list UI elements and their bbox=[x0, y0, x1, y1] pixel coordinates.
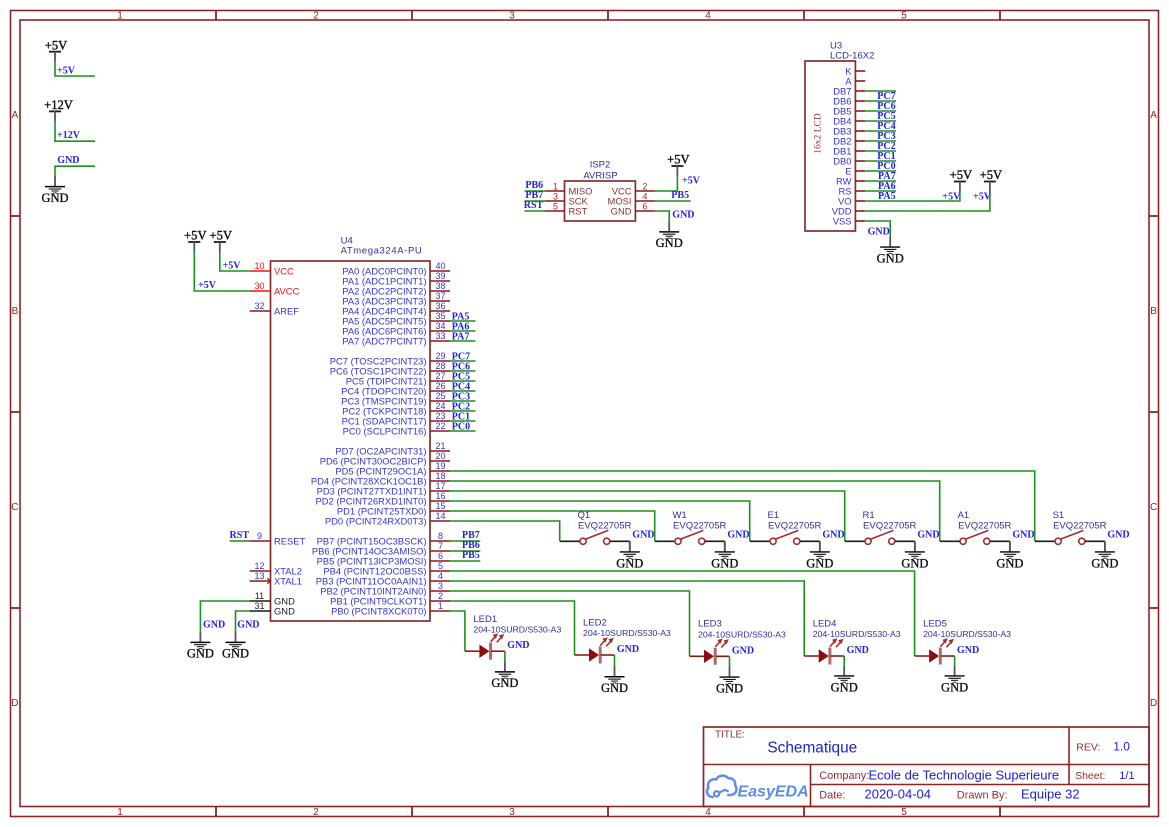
U4 pin 23 PC1 bbox=[342, 411, 450, 426]
svg-text:+5V: +5V bbox=[45, 38, 68, 52]
svg-text:D: D bbox=[1150, 698, 1157, 709]
svg-text:21: 21 bbox=[435, 441, 445, 451]
svg-text:204-10SURD/S530-A3: 204-10SURD/S530-A3 bbox=[698, 629, 786, 639]
ground LED4 bbox=[831, 665, 858, 694]
svg-text:GND: GND bbox=[1012, 530, 1034, 541]
U3 pin VDD bbox=[832, 205, 865, 216]
U3 pin VSS bbox=[833, 215, 865, 226]
U4 pin 37 PA3 bbox=[342, 291, 450, 306]
svg-text:GND: GND bbox=[877, 251, 904, 265]
wire LED5 cathode to ground bbox=[954, 656, 956, 665]
svg-text:16x2 LCD: 16x2 LCD bbox=[813, 113, 823, 154]
U4 pin 33 PA7 bbox=[342, 331, 450, 346]
wire U3 E stub bbox=[865, 170, 896, 172]
U4 pin 6 PB5 bbox=[317, 551, 450, 566]
wire PD3 run from U4 to switch R1 bbox=[450, 491, 845, 541]
wire PD0 run from U4 to switch Q1 bbox=[450, 521, 560, 541]
svg-text:12: 12 bbox=[254, 561, 264, 571]
svg-text:31: 31 bbox=[254, 601, 264, 611]
wire LED4 cathode to ground bbox=[843, 656, 845, 665]
svg-text:EVQ22705R: EVQ22705R bbox=[863, 521, 916, 532]
svg-text:39: 39 bbox=[435, 271, 445, 281]
svg-text:+5V: +5V bbox=[950, 168, 973, 182]
svg-text:1: 1 bbox=[117, 10, 123, 21]
svg-text:204-10SURD/S530-A3: 204-10SURD/S530-A3 bbox=[473, 625, 561, 635]
wire PC6 stub at U4 bbox=[450, 370, 475, 372]
svg-text:GND: GND bbox=[1091, 556, 1118, 570]
svg-text:AREF: AREF bbox=[274, 305, 299, 316]
ground W1 bbox=[711, 541, 738, 570]
svg-text:5: 5 bbox=[553, 201, 558, 211]
frame column numbers bottom bbox=[117, 807, 907, 818]
svg-text:2020-04-04: 2020-04-04 bbox=[865, 786, 932, 801]
wire PC3 stub at U4 bbox=[450, 400, 475, 402]
U4 pin 13 XTAL1 bbox=[250, 571, 302, 586]
svg-text:A: A bbox=[12, 110, 19, 121]
svg-text:A1: A1 bbox=[958, 510, 970, 521]
EasyEDA logo bbox=[707, 776, 809, 801]
svg-text:GND: GND bbox=[617, 644, 639, 655]
wire PB6 to ISP2 pin1 bbox=[525, 190, 545, 192]
svg-text:LED2: LED2 bbox=[583, 617, 607, 628]
wire PC7 stub at U4 bbox=[450, 360, 475, 362]
svg-text:VSS: VSS bbox=[833, 215, 852, 226]
svg-text:PA7 (ADC7PCINT7): PA7 (ADC7PCINT7) bbox=[342, 335, 426, 346]
svg-text:EasyEDA: EasyEDA bbox=[738, 784, 809, 801]
svg-text:204-10SURD/S530-A3: 204-10SURD/S530-A3 bbox=[923, 629, 1011, 639]
svg-text:GND: GND bbox=[611, 205, 632, 216]
wire U3 DB1 stub bbox=[865, 150, 896, 152]
wire U3 RS stub bbox=[865, 190, 896, 192]
svg-text:GND: GND bbox=[632, 530, 654, 541]
svg-text:+5V: +5V bbox=[57, 65, 76, 76]
power flag +5V at ISP2 bbox=[667, 153, 690, 176]
switch R1 EVQ22705R bbox=[845, 510, 917, 551]
wire ISP2 pin2 VCC to +5V bbox=[655, 176, 677, 191]
led LED2 204-10SURD/S530-A3 bbox=[575, 617, 672, 663]
svg-text:Schematique: Schematique bbox=[767, 740, 857, 757]
svg-text:3: 3 bbox=[553, 191, 558, 201]
svg-text:+5V: +5V bbox=[184, 229, 207, 243]
wire U3 DB7 stub bbox=[865, 90, 896, 92]
svg-text:Date:: Date: bbox=[819, 789, 845, 801]
led LED5 204-10SURD/S530-A3 bbox=[915, 618, 1012, 664]
svg-text:16: 16 bbox=[435, 491, 445, 501]
wire PB5 from ISP2 pin4 bbox=[655, 200, 691, 202]
svg-text:204-10SURD/S530-A3: 204-10SURD/S530-A3 bbox=[813, 629, 901, 639]
svg-text:8: 8 bbox=[438, 531, 443, 541]
ground R1 bbox=[901, 541, 928, 570]
wire LED3 cathode to ground bbox=[729, 656, 731, 666]
U4 pin 3 PB2 bbox=[320, 581, 450, 596]
svg-text:+5V: +5V bbox=[973, 191, 992, 202]
svg-text:7: 7 bbox=[438, 541, 443, 551]
wire PB6 stub at U4 bbox=[450, 550, 480, 552]
U4 pin 15 PD1 bbox=[337, 501, 450, 516]
svg-text:GND: GND bbox=[822, 530, 844, 541]
wire U4 PB2 run to LED3 bbox=[450, 591, 690, 656]
wire U3 VDD to +5V bbox=[865, 192, 990, 212]
svg-text:GND: GND bbox=[996, 556, 1023, 570]
power flag +5V at U4 AVCC bbox=[184, 229, 207, 252]
ground U4 pin11 bbox=[187, 632, 214, 661]
svg-text:EVQ22705R: EVQ22705R bbox=[768, 521, 821, 532]
wire PD4 run from U4 to switch A1 bbox=[450, 481, 940, 541]
svg-text:W1: W1 bbox=[673, 510, 687, 521]
svg-text:GND: GND bbox=[847, 645, 869, 656]
ground Q1 bbox=[616, 541, 643, 570]
wire PB5 stub at U4 bbox=[450, 560, 480, 562]
wire PD1 run from U4 to switch W1 bbox=[450, 511, 655, 541]
svg-text:LED4: LED4 bbox=[813, 618, 837, 629]
U4 pin 10 VCC bbox=[250, 261, 294, 276]
svg-text:GND: GND bbox=[716, 681, 743, 695]
U4 pin 28 PC6 bbox=[330, 361, 450, 376]
svg-text:RST: RST bbox=[569, 205, 588, 216]
svg-text:GND: GND bbox=[831, 680, 858, 694]
ground A1 bbox=[996, 541, 1023, 570]
wire U3 DB0 stub bbox=[865, 160, 896, 162]
frame row letters left bbox=[11, 110, 18, 709]
svg-text:2: 2 bbox=[438, 591, 443, 601]
ground top-left rail bbox=[41, 176, 68, 205]
wire ISP2 pin6 to ground bbox=[655, 211, 669, 221]
U4 pin 22 PC0 bbox=[343, 421, 450, 436]
svg-text:204-10SURD/S530-A3: 204-10SURD/S530-A3 bbox=[583, 628, 671, 638]
U3 pin DB3 bbox=[833, 125, 865, 136]
svg-text:C: C bbox=[1150, 502, 1157, 513]
svg-text:19: 19 bbox=[435, 461, 445, 471]
svg-text:29: 29 bbox=[435, 351, 445, 361]
U3 pin RS bbox=[838, 185, 865, 196]
ground LED1 bbox=[491, 661, 518, 690]
svg-text:LCD-16X2: LCD-16X2 bbox=[830, 50, 874, 61]
wire U3 DB6 stub bbox=[865, 100, 896, 102]
connector U3 body outline bbox=[805, 61, 855, 231]
connector ISP2 body outline bbox=[565, 181, 636, 221]
svg-text:+5V: +5V bbox=[210, 229, 233, 243]
svg-text:TITLE:: TITLE: bbox=[715, 729, 745, 740]
U3 pin RW bbox=[836, 175, 865, 186]
svg-text:GND: GND bbox=[901, 556, 928, 570]
svg-text:2: 2 bbox=[642, 181, 647, 191]
wire LED2 cathode to ground bbox=[614, 655, 616, 666]
svg-text:GND: GND bbox=[222, 647, 249, 661]
svg-text:EVQ22705R: EVQ22705R bbox=[578, 521, 631, 532]
svg-text:1: 1 bbox=[117, 807, 123, 818]
led LED4 204-10SURD/S530-A3 bbox=[804, 618, 901, 664]
svg-text:PA7: PA7 bbox=[452, 332, 470, 343]
wire U3 DB2 stub bbox=[865, 140, 896, 142]
svg-text:37: 37 bbox=[435, 291, 445, 301]
U3 pin VO bbox=[838, 195, 865, 206]
svg-text:3: 3 bbox=[509, 807, 515, 818]
svg-text:Q1: Q1 bbox=[578, 510, 591, 521]
svg-text:13: 13 bbox=[254, 571, 264, 581]
svg-text:GND: GND bbox=[732, 645, 754, 656]
U4 pin 30 AVCC bbox=[250, 281, 300, 296]
wire U4 PB4 run to LED5 bbox=[450, 571, 915, 656]
wire U3 RW stub bbox=[865, 180, 896, 182]
svg-text:S1: S1 bbox=[1053, 510, 1065, 521]
svg-text:1.0: 1.0 bbox=[1113, 739, 1130, 753]
U4 pin 4 PB3 bbox=[316, 571, 450, 586]
wire U3 VO to +5V bbox=[865, 192, 960, 202]
svg-text:+5V: +5V bbox=[942, 191, 961, 202]
wire PC2 stub at U4 bbox=[450, 410, 475, 412]
wire PA5 stub at U4 bbox=[450, 320, 475, 322]
U4 pin 9 RESET bbox=[250, 531, 306, 546]
svg-text:3: 3 bbox=[509, 10, 515, 21]
U4 pin 21 PD7 bbox=[335, 441, 450, 456]
U3 pin DB2 bbox=[833, 135, 865, 146]
svg-text:GND: GND bbox=[868, 227, 890, 238]
svg-text:B: B bbox=[1150, 306, 1157, 317]
svg-text:PB0 (PCINT8XCK0T0): PB0 (PCINT8XCK0T0) bbox=[331, 605, 426, 616]
ground LED3 bbox=[716, 666, 743, 695]
svg-text:GND: GND bbox=[656, 236, 683, 250]
svg-text:GND: GND bbox=[203, 620, 225, 631]
U3 pin DB1 bbox=[833, 145, 865, 156]
U4 pin 26 PC4 bbox=[341, 381, 450, 396]
wire U4 PB0 run to LED1 bbox=[450, 611, 465, 651]
U4 pin 2 PB1 bbox=[330, 591, 450, 606]
svg-text:PC0: PC0 bbox=[452, 422, 470, 433]
svg-text:14: 14 bbox=[435, 511, 445, 521]
ground LED2 bbox=[601, 666, 628, 695]
ground LED5 bbox=[941, 665, 968, 694]
wire RST to U4 RESET bbox=[230, 540, 250, 542]
ground U4 pin31 bbox=[222, 632, 249, 661]
svg-text:2: 2 bbox=[313, 10, 319, 21]
svg-text:4: 4 bbox=[705, 10, 711, 21]
U4 pin 5 PB4 bbox=[323, 561, 450, 576]
U4 pin 14 PD0 bbox=[325, 511, 450, 526]
svg-text:GND: GND bbox=[711, 556, 738, 570]
wire U3 DB5 stub bbox=[865, 110, 896, 112]
U3 pin DB6 bbox=[833, 95, 865, 106]
power flag +5V at U3 VO bbox=[950, 168, 973, 191]
U4 pin 18 PD4 bbox=[311, 471, 450, 486]
svg-text:Sheet:: Sheet: bbox=[1075, 770, 1105, 782]
wire PB7 stub at U4 bbox=[450, 540, 480, 542]
svg-text:GND: GND bbox=[507, 640, 529, 651]
U4 pin 12 XTAL2 bbox=[250, 561, 302, 576]
svg-text:18: 18 bbox=[435, 471, 445, 481]
svg-text:RESET: RESET bbox=[274, 535, 306, 546]
wire PA7 stub at U4 bbox=[450, 340, 475, 342]
wire PC0 stub at U4 bbox=[450, 430, 475, 432]
U4 pin 8 PB7 bbox=[317, 531, 450, 546]
wire PD2 run from U4 to switch E1 bbox=[450, 501, 750, 541]
U3 pin K bbox=[845, 65, 865, 76]
svg-text:RST: RST bbox=[230, 530, 250, 541]
wire PB7 to ISP2 pin3 bbox=[525, 200, 545, 202]
U3 pin DB0 bbox=[833, 155, 865, 166]
power flag +5V at U3 VDD bbox=[980, 168, 1003, 191]
wire PC5 stub at U4 bbox=[450, 380, 475, 382]
svg-text:E1: E1 bbox=[768, 510, 780, 521]
wire GND rail stub (top-left) bbox=[55, 166, 95, 176]
title block outline bbox=[704, 727, 1150, 807]
svg-text:GND: GND bbox=[616, 556, 643, 570]
wire U3 DB4 stub bbox=[865, 120, 896, 122]
ISP2 pin 6 GND bbox=[611, 201, 656, 216]
wire +5V to U4 pin10 VCC bbox=[220, 252, 250, 271]
U4 pin 27 PC5 bbox=[346, 371, 450, 386]
U4 pin 32 AREF bbox=[250, 301, 300, 316]
svg-text:6: 6 bbox=[438, 551, 443, 561]
U4 pin 11 GND bbox=[250, 591, 295, 606]
U4 pin 40 PA0 bbox=[342, 261, 450, 276]
svg-text:15: 15 bbox=[435, 501, 445, 511]
svg-text:GND: GND bbox=[727, 530, 749, 541]
led LED3 204-10SURD/S530-A3 bbox=[690, 619, 787, 665]
wire +5V rail stub (top-left) bbox=[55, 62, 95, 76]
svg-text:24: 24 bbox=[435, 401, 445, 411]
switch Q1 EVQ22705R bbox=[560, 510, 632, 551]
svg-text:35: 35 bbox=[435, 311, 445, 321]
svg-text:34: 34 bbox=[435, 321, 445, 331]
svg-text:+5V: +5V bbox=[223, 260, 242, 271]
svg-text:C: C bbox=[11, 502, 18, 513]
svg-text:EVQ22705R: EVQ22705R bbox=[1053, 521, 1106, 532]
svg-text:+12V: +12V bbox=[57, 130, 81, 141]
U4 pin 25 PC3 bbox=[341, 391, 450, 406]
wire U4 PB3 run to LED4 bbox=[450, 581, 804, 656]
svg-text:VCC: VCC bbox=[274, 265, 294, 276]
wire PD5 run from U4 to switch S1 bbox=[450, 471, 1035, 541]
U4 pin 39 PA1 bbox=[342, 271, 450, 286]
ic U4 body outline bbox=[271, 261, 431, 621]
svg-text:RST: RST bbox=[524, 200, 544, 211]
ISP2 pin 5 RST bbox=[545, 201, 588, 216]
svg-text:4: 4 bbox=[438, 571, 443, 581]
svg-text:6: 6 bbox=[642, 201, 647, 211]
switch S1 EVQ22705R bbox=[1035, 510, 1107, 551]
svg-text:+5V: +5V bbox=[667, 153, 690, 167]
svg-text:+12V: +12V bbox=[44, 98, 73, 112]
svg-text:AVRISP: AVRISP bbox=[583, 171, 617, 182]
svg-text:GND: GND bbox=[806, 556, 833, 570]
U4 pin 19 PD5 bbox=[335, 461, 450, 476]
svg-text:5: 5 bbox=[438, 561, 443, 571]
svg-text:ATmega324A-PU: ATmega324A-PU bbox=[341, 245, 423, 256]
U4 pin 29 PC7 bbox=[330, 351, 450, 366]
svg-text:LED3: LED3 bbox=[698, 619, 722, 630]
svg-text:5: 5 bbox=[901, 10, 907, 21]
ISP2 pin 2 VCC bbox=[612, 181, 656, 196]
U4 pin 20 PD6 bbox=[320, 451, 450, 466]
frame column numbers top bbox=[117, 10, 907, 21]
svg-text:EVQ22705R: EVQ22705R bbox=[958, 521, 1011, 532]
ground U3 VSS bbox=[877, 236, 904, 265]
svg-text:GND: GND bbox=[187, 647, 214, 661]
wire U4 PB1 run to LED2 bbox=[450, 601, 575, 655]
svg-text:Drawn By:: Drawn By: bbox=[957, 789, 1008, 801]
svg-text:11: 11 bbox=[255, 591, 264, 601]
U4 pin 16 PD2 bbox=[316, 491, 450, 506]
svg-text:GND: GND bbox=[601, 681, 628, 695]
svg-text:20: 20 bbox=[435, 451, 445, 461]
svg-text:A: A bbox=[1150, 110, 1157, 121]
svg-text:22: 22 bbox=[435, 421, 445, 431]
svg-text:1: 1 bbox=[438, 601, 443, 611]
svg-text:Ecole de Technologie Superieur: Ecole de Technologie Superieure bbox=[869, 768, 1060, 783]
svg-text:33: 33 bbox=[435, 331, 445, 341]
svg-text:26: 26 bbox=[435, 381, 445, 391]
svg-text:PC0 (SCLPCINT16): PC0 (SCLPCINT16) bbox=[343, 425, 427, 436]
ISP2 pin 3 SCK bbox=[545, 191, 589, 206]
U4 pin 36 PA4 bbox=[342, 301, 450, 316]
U4 pin 31 GND bbox=[250, 601, 295, 616]
svg-text:1: 1 bbox=[553, 181, 558, 191]
svg-text:GND: GND bbox=[1107, 530, 1129, 541]
svg-text:36: 36 bbox=[435, 301, 445, 311]
power flag +5V rail (top-left) bbox=[45, 38, 68, 61]
wire PA6 stub at U4 bbox=[450, 330, 475, 332]
U4 pin 35 PA5 bbox=[342, 311, 450, 326]
svg-text:GND: GND bbox=[274, 605, 295, 616]
U4 pin 24 PC2 bbox=[342, 401, 450, 416]
svg-text:GND: GND bbox=[237, 620, 259, 631]
svg-text:B: B bbox=[12, 306, 19, 317]
power flag +5V at U4 VCC bbox=[210, 229, 233, 252]
svg-text:GND: GND bbox=[41, 191, 68, 205]
svg-text:AVCC: AVCC bbox=[274, 285, 300, 296]
svg-text:1/1: 1/1 bbox=[1119, 770, 1134, 782]
U4 pin 1 PB0 bbox=[331, 601, 450, 616]
svg-text:ISP2: ISP2 bbox=[590, 160, 611, 171]
U4 pin 7 PB6 bbox=[312, 541, 450, 556]
U4 pin 34 PA6 bbox=[342, 321, 450, 336]
svg-text:GND: GND bbox=[57, 155, 79, 166]
svg-text:+5V: +5V bbox=[198, 280, 217, 291]
wire RST to ISP2 pin5 bbox=[525, 210, 545, 212]
svg-text:XTAL1: XTAL1 bbox=[274, 575, 302, 586]
ISP2 pin 1 MISO bbox=[545, 181, 593, 196]
svg-text:32: 32 bbox=[254, 301, 264, 311]
svg-text:PD0 (PCINT24RXD0T3): PD0 (PCINT24RXD0T3) bbox=[325, 515, 427, 526]
svg-text:25: 25 bbox=[435, 391, 445, 401]
svg-text:9: 9 bbox=[257, 531, 262, 541]
U3 pin DB5 bbox=[833, 105, 865, 116]
wire U3 VSS to ground bbox=[865, 221, 890, 236]
power flag +12V rail (top-left) bbox=[44, 98, 73, 121]
wire +5V to U4 pin30 AVCC bbox=[194, 252, 249, 291]
svg-text:GND: GND bbox=[491, 676, 518, 690]
switch E1 EVQ22705R bbox=[750, 510, 822, 551]
svg-text:4: 4 bbox=[642, 191, 647, 201]
svg-text:EVQ22705R: EVQ22705R bbox=[673, 521, 726, 532]
ground ISP2 bbox=[656, 221, 683, 250]
svg-text:GND: GND bbox=[941, 680, 968, 694]
svg-text:4: 4 bbox=[705, 807, 711, 818]
svg-text:3: 3 bbox=[438, 581, 443, 591]
wire LED1 cathode to ground bbox=[504, 651, 506, 661]
ground S1 bbox=[1091, 541, 1118, 570]
frame row letters right bbox=[1150, 110, 1157, 709]
svg-text:38: 38 bbox=[435, 281, 445, 291]
U4 pin 17 PD3 bbox=[317, 481, 450, 496]
U3 pin DB4 bbox=[833, 115, 865, 126]
svg-text:+5V: +5V bbox=[980, 168, 1003, 182]
svg-text:GND: GND bbox=[917, 530, 939, 541]
U4 pin 38 PA2 bbox=[342, 281, 450, 296]
svg-text:REV:: REV: bbox=[1076, 741, 1100, 753]
svg-text:+5V: +5V bbox=[682, 176, 701, 187]
svg-text:40: 40 bbox=[435, 261, 445, 271]
